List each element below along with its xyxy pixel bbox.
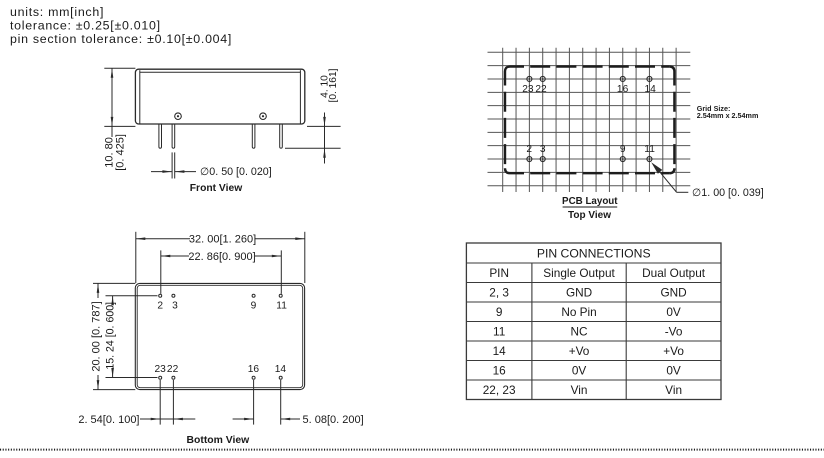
svg-text:23: 23 <box>522 84 534 95</box>
svg-text:14: 14 <box>493 344 507 358</box>
svg-text:[0. 425]: [0. 425] <box>114 134 126 171</box>
front view: pin 4 <box>280 124 283 148</box>
svg-text:0V: 0V <box>666 363 681 377</box>
svg-text:16: 16 <box>493 363 507 377</box>
front view: dimension 10.80 extension line bottom <box>104 125 135 127</box>
bottom view: module body outline inner <box>137 285 303 387</box>
front view: dimension 10.80 extension line top <box>104 67 135 69</box>
pcb layout: pin 11 pad <box>647 157 652 162</box>
svg-text:PIN: PIN <box>489 266 509 280</box>
svg-text:22. 86[0. 900]: 22. 86[0. 900] <box>188 251 255 263</box>
front view: body inner top edge line <box>140 71 301 73</box>
bottom view: pin 11 <box>279 294 282 297</box>
svg-text:PCB Layout: PCB Layout <box>562 196 618 207</box>
svg-text:GND: GND <box>566 285 592 299</box>
front view: screw boss right <box>260 113 267 120</box>
svg-text:0V: 0V <box>572 363 587 377</box>
svg-text:Bottom View: Bottom View <box>187 435 251 446</box>
svg-text:Vin: Vin <box>665 383 682 397</box>
bottom view: dimension 22.86 extension lines <box>160 250 162 293</box>
bottom view: dimension 15.24 line with arrows <box>112 296 114 302</box>
pcb layout: pin 2 pad <box>527 157 532 162</box>
svg-text:2, 3: 2, 3 <box>489 285 509 299</box>
svg-text:22: 22 <box>535 84 547 95</box>
pcb layout: pin 14 pad <box>647 76 652 81</box>
pcb layout: pin 23 pad <box>527 76 532 81</box>
front view: pin 1 <box>159 124 162 148</box>
svg-text:14: 14 <box>645 84 657 95</box>
pcb layout: pin 22 pad <box>540 76 545 81</box>
front view: pin 3 <box>252 124 255 148</box>
front view: dimension 4.10 dimension line with outside arrows <box>324 113 326 164</box>
table: column lines <box>532 263 626 400</box>
front view: dimension 4.10 extension line bottom (pin end) <box>285 147 341 149</box>
svg-text:15. 24 [0. 600]: 15. 24 [0. 600] <box>104 302 116 370</box>
svg-text:-Vo: -Vo <box>665 324 683 338</box>
bottom view: pin 14 <box>279 376 282 379</box>
svg-text:23: 23 <box>155 364 167 375</box>
front view: pin diameter detail lines (pin 2 extended) <box>171 152 173 178</box>
svg-text:Vin: Vin <box>571 383 588 397</box>
front view: body inner right edge line <box>299 70 301 124</box>
svg-text:2: 2 <box>157 300 163 311</box>
front view: dimension 10.80 dimension line with arrows <box>111 68 113 126</box>
front view: dimension 0.50 pin diameter leader lines <box>151 171 172 173</box>
svg-text:3: 3 <box>172 300 178 311</box>
pcb layout: module outline (dashed, solid corners) <box>505 67 510 72</box>
svg-text:Top View: Top View <box>568 210 611 221</box>
bottom view: pin 9 <box>252 294 255 297</box>
bottom view: dimension 2.54 extension lines <box>159 380 161 425</box>
svg-text:∅0. 50 [0. 020]: ∅0. 50 [0. 020] <box>200 166 272 178</box>
svg-text:units: mm[inch]: units: mm[inch] <box>10 5 104 19</box>
svg-text:NC: NC <box>571 324 589 338</box>
svg-text:2: 2 <box>526 144 532 155</box>
bottom view: dimension 5.08 extension lines <box>253 380 255 425</box>
page footer dotted rule <box>0 449 824 451</box>
svg-text:9: 9 <box>620 144 626 155</box>
svg-text:Single Output: Single Output <box>543 266 615 280</box>
pcb layout: pin 16 pad <box>620 76 625 81</box>
svg-text:PIN CONNECTIONS: PIN CONNECTIONS <box>537 247 651 261</box>
svg-text:tolerance: ±0.25[±0.010]: tolerance: ±0.25[±0.010] <box>10 19 161 33</box>
svg-text:∅1. 00 [0. 039]: ∅1. 00 [0. 039] <box>692 187 764 199</box>
bottom view: module body outline outer <box>135 283 304 389</box>
bottom view: pin 23 <box>159 376 162 379</box>
svg-text:11: 11 <box>493 324 505 338</box>
svg-text:Dual Output: Dual Output <box>642 266 706 280</box>
svg-text:20. 00 [0. 787]: 20. 00 [0. 787] <box>90 301 102 371</box>
bottom view: dimension 32.00 extension lines <box>135 232 137 283</box>
bottom view: dimension 2.54 line with outside arrows <box>140 418 173 420</box>
bottom view: dimension 22.86 line with arrows <box>161 255 189 257</box>
svg-text:32. 00[1. 260]: 32. 00[1. 260] <box>189 234 256 246</box>
svg-text:22, 23: 22, 23 <box>483 383 516 397</box>
pcb layout: grid vertical lines <box>503 48 676 192</box>
front view: pin 2 <box>172 124 175 148</box>
pcb layout: pin 9 pad <box>620 157 625 162</box>
svg-text:0V: 0V <box>666 305 681 319</box>
svg-text:pin section tolerance: ±0.10[±: pin section tolerance: ±0.10[±0.004] <box>10 32 232 46</box>
svg-text:2. 54[0. 100]: 2. 54[0. 100] <box>78 414 139 426</box>
pcb layout: grid horizontal lines <box>488 52 691 185</box>
svg-text:+Vo: +Vo <box>569 344 590 358</box>
bottom view: pin 22 <box>172 376 175 379</box>
table: pin connections outer border <box>466 243 721 400</box>
front view: screw boss left <box>175 113 182 120</box>
front view: dimension 4.10 extension line top (case bottom) <box>307 125 341 127</box>
svg-text:GND: GND <box>660 285 686 299</box>
bottom view: dimension 20.00 line with arrows <box>97 283 99 298</box>
table: row lines <box>466 263 721 380</box>
front view: module body outline <box>135 69 304 124</box>
svg-text:14: 14 <box>275 364 287 375</box>
svg-text:16: 16 <box>248 364 260 375</box>
pcb layout: pin 3 pad <box>540 157 545 162</box>
front view: body inner left edge line <box>139 70 141 124</box>
bottom view: left extension lines <box>93 282 135 284</box>
svg-text:22: 22 <box>167 364 179 375</box>
svg-text:11: 11 <box>644 144 655 155</box>
svg-text:No Pin: No Pin <box>561 305 596 319</box>
bottom view: dimension 5.08 line with outside arrows <box>233 418 254 420</box>
svg-text:11: 11 <box>276 300 287 311</box>
bottom view: pin 16 <box>252 376 255 379</box>
svg-text:5. 08[0. 200]: 5. 08[0. 200] <box>303 414 364 426</box>
bottom view: pin 2 <box>159 294 162 297</box>
bottom view: dimension 32.00 line with arrows <box>136 238 190 240</box>
svg-text:16: 16 <box>617 84 629 95</box>
svg-text:3: 3 <box>540 144 546 155</box>
svg-text:9: 9 <box>251 300 257 311</box>
pcb layout: hole diameter leader arrow to pin 11 <box>651 162 662 174</box>
svg-text:Front View: Front View <box>190 183 243 194</box>
svg-text:2.54mm x 2.54mm: 2.54mm x 2.54mm <box>697 111 759 120</box>
svg-text:[0. 161]: [0. 161] <box>328 68 339 102</box>
svg-text:+Vo: +Vo <box>663 344 684 358</box>
bottom view: pin 3 <box>172 294 175 297</box>
svg-text:9: 9 <box>496 305 503 319</box>
